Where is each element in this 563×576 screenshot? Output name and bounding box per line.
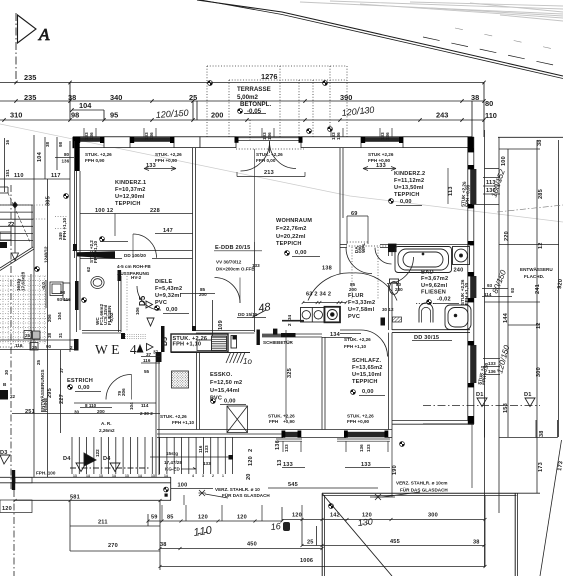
svg-text:U=9,32ml: U=9,32ml — [155, 293, 182, 299]
svg-text:251: 251 — [25, 409, 35, 415]
svg-text:38: 38 — [160, 542, 167, 548]
svg-text:VV 30/70/12: VV 30/70/12 — [216, 260, 242, 265]
svg-text:D4: D4 — [103, 456, 111, 462]
svg-text:U=7,58ml: U=7,58ml — [348, 307, 375, 313]
svg-text:55: 55 — [144, 369, 150, 374]
svg-text:113: 113 — [448, 186, 454, 196]
svg-text:120: 120 — [237, 515, 247, 521]
svg-text:206: 206 — [121, 388, 126, 396]
svg-text:FLACHD.: FLACHD. — [524, 274, 544, 279]
svg-text:DIELE: DIELE — [155, 279, 173, 285]
svg-text:136: 136 — [359, 444, 364, 452]
svg-text:VERZ. STAHLR. ø 10: VERZ. STAHLR. ø 10 — [215, 487, 260, 492]
svg-text:2: 2 — [70, 345, 73, 350]
svg-text:280: 280 — [395, 287, 403, 292]
svg-text:1240/12: 1240/12 — [44, 246, 49, 263]
svg-text:455: 455 — [390, 539, 400, 545]
svg-text:158: 158 — [503, 403, 509, 413]
svg-text:5,00m2: 5,00m2 — [237, 94, 259, 101]
svg-text:37: 37 — [59, 367, 64, 373]
svg-text:TERRASSE: TERRASSE — [237, 86, 271, 93]
svg-text:12: 12 — [536, 322, 542, 329]
svg-text:270: 270 — [108, 543, 118, 549]
svg-text:104: 104 — [57, 312, 62, 320]
svg-text:ESTRICH: ESTRICH — [67, 378, 93, 384]
svg-text:450: 450 — [247, 542, 257, 548]
svg-text:90: 90 — [46, 344, 52, 349]
svg-text:200: 200 — [211, 111, 223, 120]
svg-text:E-DDB 20/15: E-DDB 20/15 — [215, 245, 250, 251]
svg-text:30: 30 — [74, 410, 80, 415]
svg-text:22: 22 — [8, 222, 15, 228]
svg-text:FÜR DAS GLASDACH: FÜR DAS GLASDACH — [222, 492, 270, 498]
svg-text:22: 22 — [10, 394, 16, 399]
svg-text:14: 14 — [138, 474, 142, 478]
svg-text:213: 213 — [264, 170, 274, 176]
svg-text:FPH +1,10: FPH +1,10 — [172, 420, 195, 425]
svg-text:110: 110 — [14, 173, 24, 179]
svg-text:PVC: PVC — [348, 314, 360, 320]
svg-text:120: 120 — [198, 515, 208, 521]
svg-text:TEPPICH: TEPPICH — [352, 379, 378, 385]
svg-text:340: 340 — [110, 93, 122, 102]
svg-text:12: 12 — [538, 242, 544, 249]
svg-text:25: 25 — [36, 359, 41, 365]
svg-text:14: 14 — [86, 474, 90, 478]
svg-text:14: 14 — [112, 474, 116, 478]
svg-text:133: 133 — [203, 461, 211, 466]
svg-text:WOHNRAUM: WOHNRAUM — [276, 218, 312, 224]
svg-text:114: 114 — [484, 292, 492, 297]
svg-text:106: 106 — [135, 307, 140, 315]
svg-text:211: 211 — [98, 520, 108, 526]
svg-text:U=12,90ml: U=12,90ml — [115, 194, 145, 200]
svg-text:85: 85 — [167, 515, 174, 521]
svg-text:93: 93 — [60, 290, 66, 295]
svg-text:TEPPICH: TEPPICH — [115, 201, 141, 207]
svg-text:138: 138 — [322, 266, 332, 272]
svg-text:190: 190 — [392, 465, 398, 475]
svg-text:D3: D3 — [0, 450, 8, 456]
svg-text:104: 104 — [37, 151, 43, 162]
svg-text:151: 151 — [5, 169, 10, 177]
svg-text:BETONPL.: BETONPL. — [240, 101, 271, 108]
svg-text:100 12: 100 12 — [95, 208, 113, 214]
svg-text:KINDERZ.1: KINDERZ.1 — [115, 180, 146, 186]
svg-text:13: 13 — [99, 474, 103, 478]
svg-text:PVC: PVC — [155, 300, 167, 306]
svg-text:DD 30/15: DD 30/15 — [414, 335, 439, 341]
svg-text:HV-2: HV-2 — [131, 275, 142, 280]
svg-text:FLIESEN: FLIESEN — [421, 290, 446, 296]
svg-text:98: 98 — [58, 141, 63, 147]
svg-text:U=9,62ml: U=9,62ml — [421, 283, 448, 289]
svg-text:U=15,10ml: U=15,10ml — [352, 372, 382, 378]
svg-text:STUK. +2,26: STUK. +2,26 — [160, 414, 187, 419]
svg-text:2: 2 — [212, 474, 214, 478]
svg-text:TEPPICH: TEPPICH — [394, 192, 420, 198]
svg-text:120: 120 — [292, 513, 302, 519]
svg-text:14: 14 — [164, 474, 168, 478]
svg-text:206: 206 — [47, 314, 52, 322]
svg-text:133: 133 — [283, 462, 293, 468]
svg-text:200: 200 — [349, 287, 357, 292]
svg-text:13: 13 — [73, 474, 77, 478]
svg-text:200: 200 — [199, 292, 207, 297]
svg-text:D5: D5 — [138, 295, 147, 306]
svg-text:173: 173 — [538, 462, 544, 472]
svg-text:300: 300 — [536, 367, 542, 377]
svg-text:100: 100 — [178, 483, 188, 489]
svg-text:A. R.: A. R. — [101, 421, 111, 426]
svg-text:FPH +0,90: FPH +0,90 — [347, 419, 370, 424]
svg-text:20: 20 — [246, 473, 252, 480]
svg-text:25: 25 — [32, 345, 38, 350]
svg-text:37: 37 — [146, 352, 152, 357]
svg-text:34: 34 — [287, 314, 292, 320]
svg-text:37: 37 — [153, 350, 159, 355]
svg-text:136: 136 — [267, 132, 272, 140]
svg-text:25: 25 — [189, 93, 197, 102]
svg-text:136: 136 — [488, 369, 496, 374]
svg-text:295: 295 — [47, 388, 53, 398]
svg-text:69: 69 — [351, 211, 358, 217]
svg-text:235: 235 — [24, 73, 36, 82]
svg-text:136: 136 — [336, 132, 341, 140]
svg-text:D1: D1 — [524, 392, 532, 398]
svg-text:545: 545 — [288, 482, 298, 488]
svg-text:STUK. +2,26: STUK. +2,26 — [347, 414, 374, 419]
svg-text:F=13,65m2: F=13,65m2 — [352, 365, 383, 371]
svg-text:240: 240 — [454, 268, 464, 274]
svg-text:-0,02: -0,02 — [109, 312, 114, 323]
svg-text:2 30 2: 2 30 2 — [140, 411, 153, 416]
svg-text:BAD: BAD — [421, 270, 434, 276]
svg-text:133: 133 — [361, 462, 371, 468]
svg-text:581: 581 — [70, 495, 80, 501]
svg-text:U=15,44ml: U=15,44ml — [210, 388, 240, 394]
svg-text:-0,02: -0,02 — [437, 297, 451, 303]
svg-text:25: 25 — [307, 540, 314, 546]
svg-text:-0,0: -0,0 — [41, 282, 46, 290]
svg-text:300: 300 — [428, 513, 438, 519]
svg-text:142: 142 — [330, 513, 340, 519]
svg-text:104: 104 — [79, 101, 92, 110]
svg-text:FPH +1,10: FPH +1,10 — [62, 217, 67, 240]
svg-text:0,00: 0,00 — [166, 307, 178, 313]
svg-text:134: 134 — [330, 332, 341, 338]
svg-text:F=5,43m2: F=5,43m2 — [155, 286, 182, 292]
svg-text:133: 133 — [252, 263, 260, 268]
svg-text:-0,05: -0,05 — [247, 108, 262, 115]
svg-text:SCHLAFZ.: SCHLAFZ. — [352, 358, 382, 364]
svg-text:FPH 0,90: FPH 0,90 — [85, 158, 105, 163]
svg-text:305: 305 — [46, 196, 52, 206]
svg-text:147: 147 — [163, 228, 173, 234]
svg-text:2: 2 — [248, 449, 254, 452]
svg-text:25: 25 — [25, 333, 31, 338]
svg-text:A: A — [38, 25, 50, 44]
svg-text:F=12,50 m2: F=12,50 m2 — [210, 380, 242, 386]
svg-text:D5: D5 — [162, 337, 169, 346]
svg-text:15stg: 15stg — [166, 451, 178, 456]
svg-text:F=11,12m2: F=11,12m2 — [394, 178, 424, 184]
svg-text:93: 93 — [510, 287, 515, 293]
svg-text:16: 16 — [5, 139, 10, 145]
svg-text:1o: 1o — [243, 357, 252, 366]
svg-text:120: 120 — [2, 506, 12, 512]
svg-text:1006: 1006 — [300, 558, 313, 564]
svg-text:FPH +0,90: FPH +0,90 — [155, 158, 178, 163]
svg-text:63 2 34 2: 63 2 34 2 — [306, 292, 331, 298]
svg-text:0,00: 0,00 — [362, 389, 374, 395]
svg-text:116: 116 — [143, 358, 151, 363]
svg-text:136: 136 — [89, 132, 94, 140]
svg-text:0,00: 0,00 — [295, 250, 307, 256]
svg-text:1: 1 — [222, 474, 224, 478]
svg-text:325: 325 — [287, 368, 293, 378]
svg-text:38: 38 — [47, 332, 52, 338]
svg-text:ESSKO.: ESSKO. — [210, 372, 233, 378]
svg-text:KINDERZ.2: KINDERZ.2 — [394, 171, 425, 177]
svg-text:133: 133 — [366, 444, 371, 452]
svg-text:104: 104 — [129, 402, 134, 410]
svg-text:13: 13 — [125, 474, 129, 478]
svg-text:200: 200 — [97, 409, 105, 414]
svg-text:93: 93 — [487, 283, 493, 288]
svg-text:235: 235 — [24, 93, 36, 102]
svg-text:120: 120 — [248, 456, 254, 466]
svg-text:136: 136 — [385, 132, 390, 140]
svg-text:D1: D1 — [476, 392, 484, 398]
svg-text:38: 38 — [471, 93, 479, 102]
svg-text:133: 133 — [284, 444, 289, 452]
svg-text:STUK. +2,26: STUK. +2,26 — [85, 152, 112, 157]
svg-text:390: 390 — [340, 93, 352, 102]
svg-text:38: 38 — [537, 139, 543, 146]
svg-text:4-5 cm ROH-FB: 4-5 cm ROH-FB — [117, 264, 151, 269]
svg-text:KG-ED: KG-ED — [165, 467, 180, 472]
svg-text:0,00: 0,00 — [78, 385, 90, 391]
svg-text:STUK. +2,26: STUK. +2,26 — [256, 152, 283, 157]
svg-text:38: 38 — [45, 141, 50, 147]
svg-text:8 110: 8 110 — [85, 403, 97, 408]
svg-text:FLUR: FLUR — [348, 293, 364, 299]
svg-text:136: 136 — [149, 132, 154, 140]
svg-text:285: 285 — [538, 189, 544, 199]
svg-text:F=3,33m2: F=3,33m2 — [348, 300, 375, 306]
svg-text:F=10,37m2: F=10,37m2 — [115, 187, 146, 193]
svg-text:38: 38 — [473, 540, 480, 546]
svg-text:227: 227 — [59, 394, 65, 404]
svg-text:110: 110 — [485, 111, 497, 120]
svg-text:133: 133 — [376, 163, 386, 169]
svg-text:133: 133 — [146, 163, 156, 169]
svg-text:TEPPICH: TEPPICH — [276, 241, 302, 247]
svg-text:+0,90: +0,90 — [283, 419, 295, 424]
svg-text:920: 920 — [557, 279, 563, 290]
svg-text:FÜR DAS GLASDACH: FÜR DAS GLASDACH — [400, 487, 448, 493]
svg-text:13: 13 — [151, 474, 155, 478]
svg-text:30: 30 — [4, 369, 9, 375]
svg-text:2: 2 — [287, 323, 292, 326]
svg-text:136: 136 — [275, 440, 281, 450]
svg-text:109: 109 — [218, 320, 224, 330]
svg-text:310: 310 — [10, 111, 22, 120]
svg-text:DK=200cm O.FFB: DK=200cm O.FFB — [216, 267, 255, 272]
svg-text:SCHIEBETÜR: SCHIEBETÜR — [263, 339, 294, 345]
svg-text:95: 95 — [110, 111, 118, 120]
svg-text:U=13,50ml: U=13,50ml — [394, 185, 424, 191]
svg-text:STUK +2,26: STUK +2,26 — [368, 152, 394, 157]
svg-text:FPH +1,10: FPH +1,10 — [464, 282, 469, 305]
svg-text:136: 136 — [62, 159, 70, 164]
svg-text:120: 120 — [362, 513, 372, 519]
svg-text:16: 16 — [270, 521, 281, 532]
svg-text:62: 62 — [86, 266, 91, 272]
svg-text:93 116: 93 116 — [57, 297, 71, 302]
svg-text:241: 241 — [535, 284, 541, 294]
svg-text:STUK. +2,26: STUK. +2,26 — [268, 414, 295, 419]
svg-text:STUK. +2,26: STUK. +2,26 — [155, 152, 182, 157]
svg-text:F=22,76m2: F=22,76m2 — [276, 226, 307, 232]
svg-text:59: 59 — [151, 515, 158, 521]
svg-text:WE 4: WE 4 — [95, 342, 140, 357]
svg-text:100: 100 — [501, 156, 507, 166]
svg-text:FPH +1,10: FPH +1,10 — [344, 344, 367, 349]
svg-text:17,63x28: 17,63x28 — [21, 271, 26, 291]
svg-text:4: 4 — [192, 474, 194, 478]
svg-text:80: 80 — [485, 99, 493, 108]
svg-text:U=20,22ml: U=20,22ml — [276, 234, 306, 240]
svg-text:F=3,67m2: F=3,67m2 — [421, 276, 448, 282]
svg-text:113: 113 — [486, 180, 496, 186]
svg-text:173: 173 — [557, 461, 563, 472]
svg-text:FPH +1,10: FPH +1,10 — [173, 342, 202, 348]
svg-text:133: 133 — [204, 445, 209, 453]
svg-text:80: 80 — [64, 152, 70, 157]
svg-text:114: 114 — [141, 403, 149, 408]
svg-text:116: 116 — [15, 343, 23, 348]
svg-text:136: 136 — [486, 188, 496, 194]
svg-text:FPH 0,00: FPH 0,00 — [256, 158, 276, 163]
svg-text:WPL: WPL — [361, 243, 366, 253]
svg-text:FPH. 100: FPH. 100 — [36, 471, 56, 476]
svg-text:38: 38 — [68, 93, 76, 102]
svg-text:220: 220 — [504, 231, 510, 241]
svg-text:31: 31 — [58, 332, 63, 338]
svg-text:17,47/28: 17,47/28 — [164, 460, 182, 465]
svg-text:0,00: 0,00 — [400, 199, 412, 205]
svg-text:30 12: 30 12 — [382, 307, 394, 312]
svg-text:144: 144 — [503, 312, 509, 323]
svg-text:RINNE: RINNE — [43, 398, 48, 412]
svg-text:98: 98 — [71, 111, 79, 120]
svg-text:0,00: 0,00 — [224, 399, 236, 405]
svg-text:228: 228 — [150, 208, 160, 214]
svg-text:VERZ. STAHLR. ø 10cm: VERZ. STAHLR. ø 10cm — [396, 481, 447, 486]
svg-text:3: 3 — [202, 474, 204, 478]
svg-text:D4: D4 — [63, 456, 71, 462]
svg-text:2,26m2: 2,26m2 — [99, 428, 115, 433]
svg-text:116: 116 — [198, 445, 203, 453]
svg-text:DD 100/20: DD 100/20 — [124, 253, 146, 258]
svg-text:FPH +1,10: FPH +1,10 — [93, 240, 98, 263]
svg-text:FPH: FPH — [269, 419, 279, 424]
svg-text:122: 122 — [95, 449, 100, 457]
svg-text:117: 117 — [51, 173, 61, 179]
svg-text:38: 38 — [539, 430, 545, 437]
svg-text:243: 243 — [436, 111, 448, 120]
